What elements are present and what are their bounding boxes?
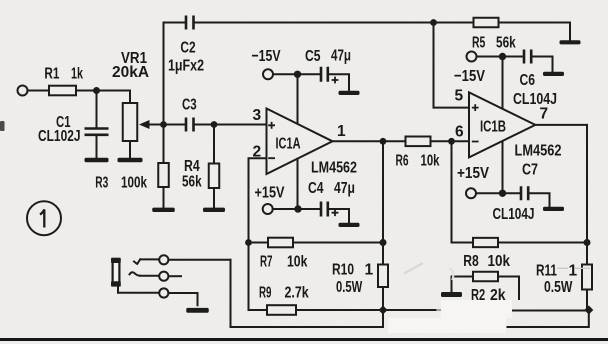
wire — [328, 209, 349, 223]
resistor R8 — [473, 238, 498, 247]
erasure smudge — [441, 300, 512, 318]
svg-text:C7: C7 — [522, 162, 538, 179]
svg-text:R3: R3 — [95, 175, 108, 192]
wire — [293, 242, 383, 244]
node +15V/C7 — [499, 190, 506, 197]
ground — [186, 308, 209, 313]
+15V supply terminal — [263, 204, 273, 214]
wire — [164, 23, 186, 125]
jack ring contact wire — [130, 272, 140, 275]
ground — [441, 292, 462, 297]
wire — [249, 243, 268, 311]
wire — [129, 141, 131, 158]
wire output pin1 — [333, 140, 384, 142]
svg-text:2.7k: 2.7k — [285, 285, 309, 302]
wire — [273, 73, 321, 75]
svg-text:+15V: +15V — [255, 185, 285, 202]
svg-text:0.5W: 0.5W — [336, 279, 363, 296]
svg-text:1μFx2: 1μFx2 — [168, 58, 204, 75]
svg-text:−15V: −15V — [252, 48, 281, 65]
svg-text:R5: R5 — [472, 34, 485, 51]
node -15V/C6 — [499, 53, 506, 60]
wire output bus right — [513, 310, 589, 312]
wire — [296, 309, 383, 311]
svg-text:C5: C5 — [305, 48, 321, 65]
capacitor C3 — [186, 118, 194, 132]
svg-text:47μ: 47μ — [331, 48, 351, 65]
svg-text:R6: R6 — [396, 153, 409, 170]
svg-text:1k: 1k — [71, 66, 83, 83]
capacitor C2 — [186, 16, 194, 30]
svg-text:+15V: +15V — [457, 165, 489, 182]
+15V supply terminal IC1B — [466, 188, 476, 198]
svg-text:56k: 56k — [182, 174, 202, 191]
wire — [532, 57, 553, 72]
resistor R3 — [163, 125, 165, 164]
op-amp IC1A — [267, 109, 333, 175]
wire output pin7 — [535, 124, 587, 126]
wire — [194, 22, 434, 24]
ground — [203, 208, 225, 212]
svg-text:1: 1 — [337, 123, 346, 140]
wire — [249, 242, 269, 244]
node pin2/R7/R9 — [245, 239, 252, 246]
svg-text:C3: C3 — [182, 97, 197, 114]
wire — [431, 140, 470, 142]
-15V supply terminal IC1B — [467, 52, 477, 62]
capacitor C5 — [321, 67, 328, 82]
node pin6/R8 — [448, 138, 455, 145]
svg-text:0.5W: 0.5W — [544, 279, 573, 296]
resistor R2 — [473, 272, 498, 282]
svg-text:1: 1 — [365, 262, 374, 279]
node R9/R10/out — [378, 305, 387, 314]
svg-text:20kA: 20kA — [112, 64, 149, 81]
node R1/C1/VR1 — [93, 87, 100, 94]
svg-text:10k: 10k — [488, 253, 511, 270]
svg-text:7: 7 — [540, 106, 549, 123]
wire V- pin IC1B — [502, 142, 504, 194]
wire — [169, 293, 198, 305]
wire — [213, 188, 215, 208]
resistor R5 — [434, 22, 474, 24]
svg-text:47μ: 47μ — [334, 180, 355, 197]
wire — [169, 259, 231, 261]
wire — [273, 208, 321, 210]
jack tip contact — [159, 255, 168, 264]
node +15V/C4 — [294, 205, 301, 212]
svg-text:10k: 10k — [421, 153, 440, 170]
svg-text:5: 5 — [455, 88, 464, 105]
node R11 output — [584, 305, 593, 314]
svg-text:3: 3 — [253, 107, 262, 124]
wire output bus — [383, 309, 436, 311]
wire headphone return — [231, 260, 384, 327]
svg-text:−15V: −15V — [454, 68, 485, 85]
input terminal — [18, 86, 28, 96]
node VR1 wiper / C2 / C3 / R3 — [160, 121, 167, 128]
capacitor C4 — [321, 202, 328, 217]
wire — [498, 242, 587, 244]
wire — [499, 23, 571, 41]
wire — [96, 135, 98, 158]
ground — [85, 158, 109, 163]
wire — [28, 90, 50, 92]
wire — [586, 125, 588, 243]
wire — [498, 277, 519, 300]
svg-text:LM4562: LM4562 — [515, 143, 562, 160]
wire pin5 — [434, 23, 470, 108]
svg-text:IC1B: IC1B — [480, 119, 506, 136]
jack tip contact wire — [134, 259, 140, 264]
op-amp IC1B — [469, 92, 535, 157]
svg-text:C2: C2 — [180, 40, 195, 57]
capacitor C1 — [96, 91, 98, 128]
svg-text:CL104J: CL104J — [513, 91, 557, 108]
wire — [76, 90, 97, 92]
wire pin2 feedback — [249, 158, 267, 242]
wire pin3 — [214, 124, 267, 126]
wire V+ pin IC1B — [502, 57, 504, 109]
node R8/pin7/R11 — [584, 239, 591, 246]
wire pin6 down — [452, 141, 474, 242]
ground — [543, 207, 564, 211]
svg-text:6: 6 — [455, 124, 464, 141]
wire — [452, 277, 474, 293]
wire — [382, 287, 384, 310]
ground — [152, 208, 175, 212]
wire — [194, 124, 215, 126]
resistor R11 — [586, 243, 588, 265]
capacitor C6 — [524, 50, 531, 64]
VR1 wiper arrow — [146, 124, 164, 126]
svg-text:R10: R10 — [332, 262, 354, 279]
resistor R4 — [213, 125, 215, 164]
svg-text:IC1A: IC1A — [276, 136, 301, 153]
wire — [586, 290, 588, 308]
svg-text:10k: 10k — [287, 254, 307, 271]
resistor R10 — [382, 243, 384, 265]
resistor R9 — [267, 305, 296, 315]
wire — [382, 141, 384, 242]
node C2/R5/pin5 — [430, 19, 437, 26]
wire — [508, 310, 589, 327]
bottom border — [0, 338, 608, 341]
svg-text:R1: R1 — [44, 66, 59, 83]
jack ring contact — [159, 272, 168, 281]
resistor R6 — [406, 137, 431, 147]
figure number 1 — [27, 201, 61, 235]
svg-text:56k: 56k — [496, 34, 516, 51]
scan artifact left edge — [0, 121, 5, 131]
wire — [164, 124, 185, 126]
jack sleeve contact — [159, 288, 168, 297]
wire — [383, 140, 406, 142]
node -15V/C5 — [294, 71, 301, 78]
svg-text:CL102J: CL102J — [38, 128, 81, 145]
svg-text:100k: 100k — [121, 175, 147, 192]
-15V supply terminal — [263, 69, 273, 79]
node R7/R10/output — [380, 239, 387, 246]
wire — [529, 193, 550, 207]
svg-text:R9: R9 — [259, 285, 272, 302]
potentiometer VR1 — [123, 103, 138, 141]
wire V- pin — [297, 159, 299, 209]
svg-text:C4: C4 — [308, 180, 324, 197]
svg-text:R7: R7 — [260, 254, 273, 271]
svg-text:R8: R8 — [463, 253, 479, 270]
ground — [560, 40, 581, 44]
ground — [339, 91, 360, 95]
node C3/R4/pin3 — [211, 121, 218, 128]
wire — [476, 192, 521, 194]
wire — [163, 187, 165, 208]
ground — [118, 158, 143, 162]
ground — [339, 223, 360, 227]
node IC1A output — [380, 138, 387, 145]
resistor R7 — [268, 238, 293, 248]
wire — [97, 91, 131, 104]
wire V+ pin — [297, 74, 299, 123]
wire — [477, 56, 524, 58]
capacitor C7 — [521, 186, 528, 200]
wire — [328, 74, 349, 90]
svg-text:C6: C6 — [520, 72, 536, 89]
svg-text:LM4562: LM4562 — [311, 160, 357, 177]
svg-text:R11: R11 — [536, 263, 557, 280]
wire stub — [169, 275, 181, 277]
svg-text:R4: R4 — [184, 158, 200, 175]
resistor R1 — [49, 86, 76, 96]
svg-text:CL104J: CL104J — [493, 206, 535, 223]
svg-text:1: 1 — [569, 263, 578, 280]
ground — [543, 72, 564, 76]
jack sleeve wire — [118, 286, 159, 293]
headphone jack plug — [113, 259, 120, 285]
